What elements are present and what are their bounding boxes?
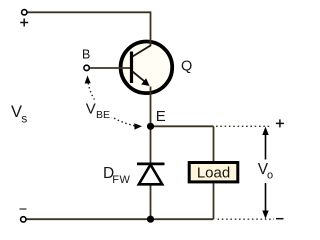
svg-text:o: o (267, 170, 273, 182)
svg-text:FW: FW (112, 174, 130, 186)
svg-text:B: B (82, 47, 90, 61)
svg-text:E: E (156, 108, 166, 125)
svg-text:BE: BE (96, 109, 110, 121)
svg-text:Load: Load (197, 165, 230, 182)
svg-text:Q: Q (181, 58, 192, 74)
svg-text:s: s (21, 111, 27, 125)
svg-text:V: V (86, 101, 96, 118)
